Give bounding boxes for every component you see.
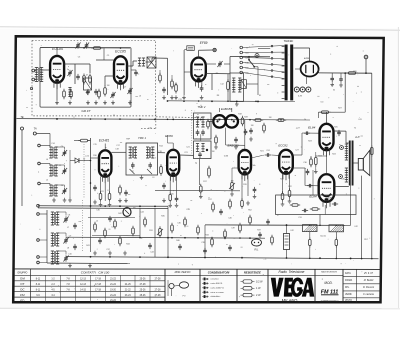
wire — [89, 64, 91, 73]
svg-text:21-22: 21-22 — [110, 300, 117, 302]
resistor R51 — [144, 217, 147, 227]
terminal P5 — [37, 261, 40, 264]
ground — [174, 95, 203, 99]
band switch dotted line — [83, 139, 85, 199]
wire — [105, 144, 126, 153]
ground — [111, 100, 115, 104]
svg-text:DATA: DATA — [345, 272, 351, 275]
mod-per-fo sketch — [168, 280, 189, 298]
tone pot — [157, 226, 163, 237]
svg-text:25-26: 25-26 — [140, 278, 147, 280]
label TMF 1 — [138, 136, 146, 140]
svg-text:C39: C39 — [231, 227, 234, 229]
svg-text:2 W: 2 W — [256, 294, 261, 297]
svg-text:12-13: 12-13 — [80, 284, 87, 286]
svg-text:R42: R42 — [118, 213, 121, 215]
resistor R18b — [263, 123, 266, 133]
svg-text:FO: FO — [20, 298, 25, 302]
svg-text:R9: R9 — [175, 84, 177, 86]
wire — [88, 218, 140, 236]
svg-text:C33: C33 — [111, 226, 114, 228]
resistor R29 — [276, 119, 286, 122]
terminal AM 3 — [38, 182, 41, 185]
svg-text:C44: C44 — [140, 212, 143, 214]
svg-text:R46: R46 — [176, 240, 179, 242]
resistor R27 — [319, 111, 330, 114]
scan speckle — [20, 45, 374, 300]
wire — [232, 168, 240, 181]
wire — [244, 120, 246, 145]
svg-text:C18: C18 — [115, 149, 118, 151]
wire — [230, 56, 270, 58]
terminal TA — [33, 132, 36, 135]
oscillator coil L9 — [51, 251, 59, 264]
svg-text:23-24: 23-24 — [125, 295, 132, 297]
capacitor C22 — [234, 137, 238, 149]
wire — [56, 165, 64, 168]
speaker AP — [358, 150, 370, 175]
IF transformer TMF1 box — [126, 143, 158, 175]
svg-text:C42: C42 — [354, 226, 357, 228]
tube V10 EL84 — [320, 124, 334, 157]
contact table cells — [36, 278, 161, 302]
svg-text:EF89: EF89 — [200, 41, 208, 45]
ground — [339, 83, 343, 87]
svg-text:25-26: 25-26 — [140, 295, 147, 297]
terminal ANT 1 — [32, 69, 35, 72]
resistor R53 — [271, 235, 274, 245]
label FM 111 — [321, 289, 339, 295]
ground — [199, 194, 203, 198]
svg-text:47: 47 — [86, 75, 88, 77]
power transformer T1 core — [285, 45, 294, 101]
capacitor C37 — [108, 216, 112, 222]
resistor R8 — [227, 79, 230, 91]
svg-text:5p: 5p — [195, 162, 197, 164]
label GR.FT — [81, 109, 91, 113]
svg-text:R21: R21 — [260, 150, 263, 152]
svg-text:A.P.: A.P. — [354, 135, 360, 139]
wire — [168, 143, 174, 150]
voltage selector taps — [240, 46, 285, 79]
label CONDENSATORI — [208, 270, 230, 274]
capacitor C32 — [332, 202, 338, 206]
svg-text:L8: L8 — [67, 247, 69, 249]
svg-text:21-22: 21-22 — [110, 284, 117, 286]
wire — [310, 246, 337, 259]
FM tuner dashed shield box — [32, 40, 156, 116]
trimmer top b — [84, 42, 89, 48]
capacitor C38 — [178, 244, 182, 250]
svg-text:C46: C46 — [228, 218, 231, 220]
wire — [127, 61, 137, 66]
resistor R5 — [104, 86, 107, 97]
wire top bus in FM box — [40, 47, 130, 49]
resistor R16a — [118, 185, 122, 203]
svg-text:C21: C21 — [186, 147, 189, 149]
svg-text:C3: C3 — [78, 56, 80, 58]
capacitor C46 — [219, 209, 223, 215]
resistor R43 — [119, 236, 122, 246]
svg-text:MOD. PER FO: MOD. PER FO — [175, 271, 191, 274]
svg-text:C7: C7 — [124, 86, 126, 88]
svg-text:ECC82: ECC82 — [278, 144, 288, 148]
oscillator coil L7 — [51, 212, 59, 225]
antenna coil L4 — [49, 147, 57, 158]
resistor R2 — [89, 74, 92, 85]
svg-text:carta 1000 Vl.: carta 1000 Vl. — [211, 286, 225, 289]
label EL84 (2) — [309, 194, 317, 198]
wire — [208, 120, 214, 122]
svg-text:C6: C6 — [61, 185, 63, 187]
svg-text:L3: L3 — [139, 96, 141, 98]
resistor R48 — [211, 237, 214, 247]
resistor R56 — [371, 145, 374, 156]
capacitor C44 — [148, 243, 152, 249]
capacitor C36 — [98, 238, 102, 244]
volume potentiometer — [229, 180, 235, 196]
svg-text:0,5M: 0,5M — [224, 155, 229, 157]
ballast resistor R35 — [284, 234, 290, 250]
left table row lines — [14, 281, 165, 297]
svg-text:C42: C42 — [290, 230, 293, 232]
capacitor C45 — [266, 219, 270, 225]
wire — [254, 67, 258, 95]
label TRASF — [284, 39, 294, 43]
svg-text:R34: R34 — [205, 235, 208, 237]
shield can with X — [147, 57, 156, 68]
wire — [334, 131, 349, 143]
resistor R4b — [70, 89, 73, 99]
svg-text:2,2k: 2,2k — [85, 155, 89, 157]
feedback network box — [276, 195, 356, 215]
terminal TE — [21, 127, 24, 130]
terminal test point — [213, 48, 216, 51]
resistor R40 — [94, 222, 97, 232]
wire — [293, 168, 319, 186]
svg-text:8-11: 8-11 — [36, 284, 41, 286]
svg-text:1M: 1M — [231, 180, 234, 182]
wire — [320, 205, 325, 225]
wire — [242, 174, 248, 200]
electrolytic C34 — [329, 225, 344, 232]
resistor R45 — [171, 223, 174, 233]
label EF89 — [200, 41, 208, 45]
svg-text:FO: FO — [183, 296, 186, 298]
coupling capacitor C27 — [304, 131, 310, 135]
resistor R18 — [214, 135, 218, 149]
svg-text:C21: C21 — [184, 152, 187, 154]
svg-text:C39: C39 — [201, 242, 204, 244]
svg-text:elettrolitici: elettrolitici — [211, 295, 221, 298]
svg-text:C5: C5 — [107, 55, 109, 57]
svg-text:R21: R21 — [280, 179, 283, 181]
svg-text:5p: 5p — [67, 69, 69, 71]
wire — [229, 57, 231, 74]
wire — [184, 72, 191, 95]
resistenze rows — [241, 280, 264, 297]
resistor R6b — [170, 79, 174, 100]
coupling capacitor C24 — [265, 153, 271, 157]
resistor R6a — [159, 73, 162, 83]
capacitor C16 — [93, 185, 97, 191]
svg-text:R18: R18 — [238, 114, 241, 116]
svg-text:1M: 1M — [212, 151, 215, 153]
ground row 2 — [93, 251, 127, 255]
svg-text:R23: R23 — [308, 140, 311, 142]
capacitor C10 — [131, 70, 138, 76]
terminal P3 — [37, 239, 40, 242]
IF transformer TMF2 lower can — [194, 141, 212, 159]
svg-text:32: 32 — [333, 90, 335, 92]
wire — [160, 70, 172, 80]
resistor R16c — [208, 166, 211, 178]
group row labels — [20, 277, 26, 303]
svg-text:C5: C5 — [59, 165, 61, 167]
mains switch — [248, 57, 255, 68]
wire right rail — [371, 73, 373, 258]
svg-text:6,3V: 6,3V — [298, 96, 303, 98]
wire — [167, 135, 169, 143]
resistor R31 — [310, 208, 320, 211]
svg-text:RESISTENZE: RESISTENZE — [244, 270, 261, 274]
wire — [286, 225, 288, 258]
wire — [58, 212, 66, 216]
capacitor C3 — [76, 74, 80, 80]
band switch dotted 2 — [82, 200, 84, 252]
svg-text:R11: R11 — [100, 191, 103, 193]
tube V6 EF89 — [167, 150, 179, 183]
svg-text:R9: R9 — [216, 73, 218, 75]
wire — [354, 162, 359, 164]
svg-text:GR.FT: GR.FT — [81, 109, 91, 113]
wire double bus A — [38, 205, 168, 208]
svg-text:VERIF.: VERIF. — [345, 294, 353, 296]
capacitor C21b — [249, 128, 253, 141]
padder capacitor — [73, 223, 77, 250]
svg-text:ceramici: ceramici — [211, 278, 220, 281]
resistor R4a — [63, 89, 66, 99]
wire double bus B — [38, 207, 168, 210]
wire — [227, 74, 229, 101]
wire — [47, 262, 130, 265]
svg-text:DIS.: DIS. — [345, 287, 350, 289]
capacitor C43 — [258, 232, 262, 238]
coupling coil L3 — [138, 58, 145, 66]
IF transformer TMF2 upper can — [194, 113, 212, 139]
label GRUPPO — [17, 272, 27, 274]
svg-text:R14: R14 — [159, 145, 162, 147]
resistor R11 — [99, 191, 102, 201]
label ECC82 — [278, 144, 288, 148]
primary tap terminals — [271, 45, 273, 77]
svg-text:21-22: 21-22 — [110, 295, 117, 297]
resistor R19 — [241, 198, 244, 208]
wire — [64, 64, 90, 84]
antenna coil L6 — [49, 185, 57, 196]
svg-text:24-26: 24-26 — [125, 284, 132, 286]
svg-text:T2: T2 — [354, 127, 356, 129]
capacitor C40 — [330, 73, 334, 82]
svg-text:C11: C11 — [178, 99, 181, 101]
svg-text:C24: C24 — [266, 150, 269, 152]
oscillator coil L8 — [51, 233, 59, 246]
wire — [318, 112, 326, 124]
capacitor C20b — [162, 183, 166, 203]
svg-text:L7: L7 — [67, 227, 69, 229]
svg-text:S1: S1 — [259, 95, 261, 97]
svg-text:TRASF.: TRASF. — [284, 39, 294, 43]
wire — [140, 206, 168, 257]
wire — [312, 170, 314, 195]
wire heater bus — [168, 100, 295, 102]
capacitor C7 — [86, 89, 90, 95]
phono jack T.U. — [252, 239, 262, 246]
terminal P1 — [37, 204, 40, 207]
trimmer — [63, 216, 68, 222]
svg-text:R28: R28 — [244, 116, 247, 118]
cathode resistor R24 — [314, 152, 318, 174]
terminal P2 — [37, 213, 40, 216]
section divider lines — [165, 269, 343, 302]
svg-text:R17: R17 — [203, 181, 206, 183]
wire B+ rail — [319, 69, 372, 73]
wire AVC bus — [17, 118, 231, 120]
svg-text:R. Passoni: R. Passoni — [363, 287, 375, 289]
pilot fuse — [255, 54, 259, 58]
wire — [91, 157, 100, 159]
svg-text:21-22: 21-22 — [125, 289, 132, 291]
wire — [361, 176, 363, 259]
IF strip dashed boundary — [141, 108, 202, 129]
IF can T.M. — [187, 46, 195, 51]
wire — [96, 48, 114, 60]
wire — [310, 232, 337, 239]
label MILANO — [282, 298, 299, 303]
wire — [344, 73, 346, 112]
tube V5 ECH81 — [99, 150, 111, 183]
title band top line — [14, 268, 381, 271]
wire — [21, 130, 23, 206]
wire — [236, 101, 238, 103]
fuse — [241, 80, 246, 89]
wire — [326, 156, 328, 174]
wire — [90, 208, 92, 252]
svg-text:FM: FM — [20, 293, 25, 297]
wire — [246, 49, 270, 85]
svg-text:C8: C8 — [68, 215, 70, 217]
svg-text:EABC80: EABC80 — [227, 144, 238, 148]
TMF1 secondary — [146, 147, 154, 169]
FM tuner solid enclosure — [40, 48, 131, 108]
left table column lines — [31, 269, 151, 302]
svg-text:C17: C17 — [116, 145, 119, 147]
ground — [86, 100, 98, 104]
trimmer — [63, 255, 68, 261]
tube V9 ECC82 — [279, 150, 293, 181]
svg-text:C15: C15 — [93, 144, 96, 146]
svg-text:C22: C22 — [212, 117, 215, 119]
svg-text:50k: 50k — [252, 165, 255, 167]
wire — [40, 184, 50, 185]
label Radio Televisione — [279, 270, 305, 274]
wire — [316, 150, 327, 156]
mains filter box — [230, 73, 244, 102]
resistor R46 — [184, 217, 187, 227]
wire — [40, 164, 50, 165]
ground — [330, 82, 334, 86]
ground — [68, 100, 72, 104]
tube V8 EABC80 — [239, 150, 251, 181]
svg-text:17-18: 17-18 — [95, 284, 102, 286]
svg-text:FIRMA: FIRMA — [345, 279, 353, 282]
wire — [293, 48, 309, 62]
wire — [56, 185, 64, 188]
wire to IF — [152, 58, 168, 95]
tube V11 EL84 — [319, 174, 335, 208]
label ECC85 (2) — [115, 50, 126, 54]
capacitor C6 — [94, 89, 98, 95]
wire — [58, 233, 66, 237]
svg-text:1M: 1M — [269, 117, 272, 119]
heater terminals — [294, 87, 311, 92]
svg-text:C41: C41 — [358, 119, 361, 121]
svg-text:R26: R26 — [353, 71, 356, 73]
svg-text:VISTO: VISTO — [345, 300, 352, 302]
svg-text:osc: osc — [79, 221, 82, 223]
svg-text:TA: TA — [33, 126, 36, 130]
label MOD. — [324, 281, 332, 285]
resistor R10 — [78, 139, 89, 142]
resistor R34 — [335, 237, 338, 247]
svg-text:C30: C30 — [303, 162, 306, 164]
svg-text:25-26: 25-26 — [140, 289, 147, 291]
ground — [246, 194, 256, 205]
resistor R50 — [239, 223, 242, 233]
svg-text:1 W: 1 W — [256, 287, 261, 290]
wire — [200, 134, 201, 185]
resistor R54 — [212, 202, 215, 212]
wire — [158, 152, 166, 154]
label 6,3V — [298, 96, 303, 98]
label 50+50 — [320, 235, 327, 237]
condensatori rows — [202, 278, 224, 299]
capacitor C23 — [253, 187, 257, 193]
capacitor C41 — [339, 73, 343, 83]
svg-text:27-28: 27-28 — [155, 278, 162, 280]
wire — [206, 74, 230, 91]
svg-text:R52: R52 — [248, 209, 251, 211]
wire — [42, 69, 51, 71]
wire — [365, 59, 367, 73]
VEGA logo — [270, 278, 315, 297]
svg-text:Radio Televisione: Radio Televisione — [279, 270, 305, 274]
trimmer C9 — [110, 92, 115, 98]
label TE — [20, 115, 24, 119]
label EABC80 — [221, 107, 232, 111]
resistor R21 — [281, 191, 284, 201]
terminal pair — [340, 146, 344, 150]
resistor R17 — [200, 184, 203, 194]
shield dotted line — [191, 110, 193, 156]
svg-text:M. Beletti: M. Beletti — [364, 279, 374, 282]
svg-text:ECC85: ECC85 — [115, 50, 126, 54]
capacitor C19 — [175, 196, 179, 202]
svg-text:50+50: 50+50 — [320, 235, 327, 237]
wire — [39, 210, 47, 263]
wire gnd bus R — [195, 257, 379, 259]
svg-text:L4: L4 — [46, 159, 48, 161]
